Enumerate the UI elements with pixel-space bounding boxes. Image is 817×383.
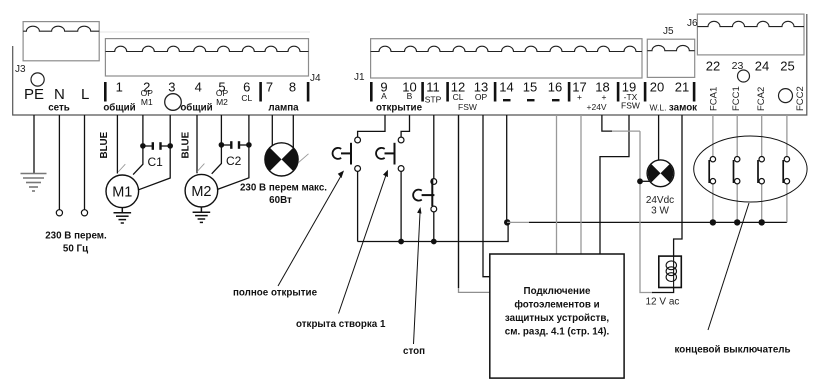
faint board top line [100,31,310,33]
junction lamp lead [637,178,643,184]
svg-text:3 W: 3 W [651,206,669,217]
svg-text:230 В перем.: 230 В перем. [45,231,107,242]
terminal N [56,210,62,216]
ground PE [21,174,47,192]
svg-text:16: 16 [548,80,562,95]
ground M2 [193,207,211,222]
hole near FCC2 [779,89,793,103]
svg-text:12 V ac: 12 V ac [646,297,680,308]
switch SW2 open leaf 1 [376,137,404,171]
svg-text:J1: J1 [354,72,365,83]
svg-text:замок: замок [669,103,697,114]
svg-text:22: 22 [706,59,720,74]
leader line limit switch [708,203,749,330]
limit switch ellipse [694,136,807,202]
svg-text:W.L.: W.L. [650,103,667,113]
junction [246,142,252,148]
svg-text:сеть: сеть [48,103,70,114]
svg-text:50 Гц: 50 Гц [63,244,88,255]
connector J3 [23,22,99,61]
junction [431,239,437,245]
terminal L [81,210,87,216]
wire FCC2 [786,115,788,157]
PE N L pins [24,86,89,103]
wire SW2 to bus [400,171,402,241]
wire L down [84,115,86,210]
wire terminal10 to SW2 [401,115,409,137]
svg-text:Подключение: Подключение [524,286,591,297]
wire terminal4 to M2 [196,115,198,173]
connector J6 [697,14,804,55]
wire SW3 to bus [433,212,435,242]
svg-text:7: 7 [266,80,273,95]
svg-text:J5: J5 [663,26,674,37]
svg-text:+: + [602,92,607,102]
svg-text:J3: J3 [15,64,26,75]
wire terminal16 to box [556,115,558,254]
svg-text:FCC2: FCC2 [795,86,806,111]
switch SW3 stop (NC) [413,179,437,212]
ground M1 [114,208,132,223]
lamp 24Vdc W.L. [647,160,674,187]
wire slash M1 [118,164,125,172]
svg-text:15: 15 [523,80,537,95]
hole [31,73,44,86]
wire terminal7 to lamp [271,115,273,146]
wire N down [58,115,60,210]
wire FCC1 [736,115,738,157]
wire terminal11 to SW3 [433,115,435,179]
svg-text:CL: CL [241,93,252,103]
svg-text:FSW: FSW [621,101,640,111]
svg-text:открытие: открытие [376,103,423,114]
svg-text:M1: M1 [141,97,153,107]
wire slash M2 [197,164,204,172]
bus switches common [358,223,509,242]
wire terminal21 to coil [652,115,682,293]
svg-text:фотоэлементов и: фотоэлементов и [514,300,599,311]
svg-text:концевой выключатель: концевой выключатель [675,345,791,356]
wire terminal8 to lamp [292,115,294,148]
svg-text:FCA1: FCA1 [709,87,720,111]
svg-text:стоп: стоп [403,346,425,357]
wire +24 gray down to coil [640,131,653,292]
svg-text:M2: M2 [191,184,211,200]
svg-text:N: N [54,86,65,103]
coil lock winding [666,261,676,282]
svg-text:M2: M2 [216,97,228,107]
svg-text:4: 4 [195,80,202,95]
leader arrow stop [414,207,422,344]
photo devices note box [490,254,624,378]
svg-text:CL: CL [453,92,464,102]
wire terminal13 to box [483,115,490,277]
junction [219,142,225,148]
leader arrow leaf1 [339,170,388,314]
svg-text:полное открытие: полное открытие [233,288,318,299]
svg-text:21: 21 [675,80,689,95]
svg-text:общий: общий [180,103,212,114]
junction dots on gnd bus [710,219,716,225]
bus gnd right gray part [507,221,529,223]
wire FCA1 [712,115,714,157]
svg-text:лампа: лампа [268,103,299,114]
wire terminal20 to lamp [658,115,660,162]
svg-text:+24V: +24V [587,102,607,112]
wire terminal19 to box [600,115,629,254]
wire terminal5 to C2 [212,115,222,174]
svg-text:PE: PE [24,86,44,103]
svg-text:60Вт: 60Вт [269,195,292,206]
junction [398,239,404,245]
connector J5 [647,39,694,77]
junction [140,143,146,149]
svg-text:STP: STP [425,95,442,105]
wire PE down [33,115,35,173]
connector J1 [371,39,642,78]
wire terminal1 to M1 [116,115,118,174]
svg-text:25: 25 [780,59,794,74]
wire terminal9 to SW1 [358,115,385,137]
svg-text:M1: M1 [112,185,132,201]
svg-text:FCA2: FCA2 [756,87,767,111]
svg-text:общий: общий [103,103,135,114]
wire terminal6 to M2 [217,115,249,190]
svg-text:24Vdc: 24Vdc [646,195,674,206]
svg-text:FSW: FSW [458,102,477,112]
wire terminal3 to M1 [139,115,171,190]
svg-text:8: 8 [289,80,296,95]
svg-text:BLUE: BLUE [99,131,110,158]
terminal numbers 9-19 [380,80,636,95]
svg-text:230 В перем макс.: 230 В перем макс. [240,183,327,194]
wire FCA2 [761,115,763,157]
svg-text:3: 3 [168,80,175,95]
svg-text:защитных устройств,: защитных устройств, [505,313,609,324]
svg-text:14: 14 [499,80,513,95]
lamp 230V [265,143,309,176]
svg-text:J6: J6 [687,18,698,29]
wire lamp lead [640,180,650,182]
wire terminal18 to lamp W.L. [602,115,612,131]
terminal numbers 22-25 [706,59,795,74]
svg-text:1: 1 [116,80,123,95]
svg-text:C1: C1 [148,155,164,169]
terminal group separator ticks [104,82,695,102]
svg-text:20: 20 [650,80,664,95]
svg-text:L: L [81,86,89,103]
junction node GND [504,219,510,225]
leader arrow full open [278,171,344,287]
pin labels row [141,88,640,111]
terminal numbers 20-21 [650,80,689,95]
svg-text:A: A [381,91,387,101]
terminal numbers 1-8 [116,80,297,95]
hole below 23 [738,70,750,82]
minus marks under 14 15 16 [503,99,560,101]
connector J4 [105,39,308,76]
svg-text:OP: OP [475,92,488,102]
wire terminal2 to C1 [133,115,143,175]
wire SW1 to bus [357,171,359,241]
svg-text:открыта створка 1: открыта створка 1 [296,319,386,330]
hole near terminal 3 [165,94,182,111]
wire terminal12 to box [459,115,490,292]
capacitor C1 [143,142,170,169]
board outline [13,14,807,115]
svg-text:см. разд. 4.1 (стр. 14).: см. разд. 4.1 (стр. 14). [505,327,610,338]
svg-text:J4: J4 [310,73,321,84]
svg-text:C2: C2 [226,154,242,168]
svg-text:24: 24 [755,59,769,74]
motor M1 [106,175,139,208]
coil lock box [659,256,682,287]
switch SW1 full open [333,137,361,171]
svg-text:+: + [577,92,582,102]
svg-text:B: B [407,91,413,101]
junction [167,143,173,149]
wire terminal17 to box [580,115,582,254]
capacitor C2 [221,141,249,168]
svg-text:11: 11 [426,80,440,95]
limit switch contacts [709,157,789,184]
motor M2 [185,174,218,207]
bus gnd right [529,221,787,223]
svg-text:FCC1: FCC1 [731,86,742,111]
svg-text:BLUE: BLUE [181,131,192,158]
wire terminal14 down [506,115,508,223]
